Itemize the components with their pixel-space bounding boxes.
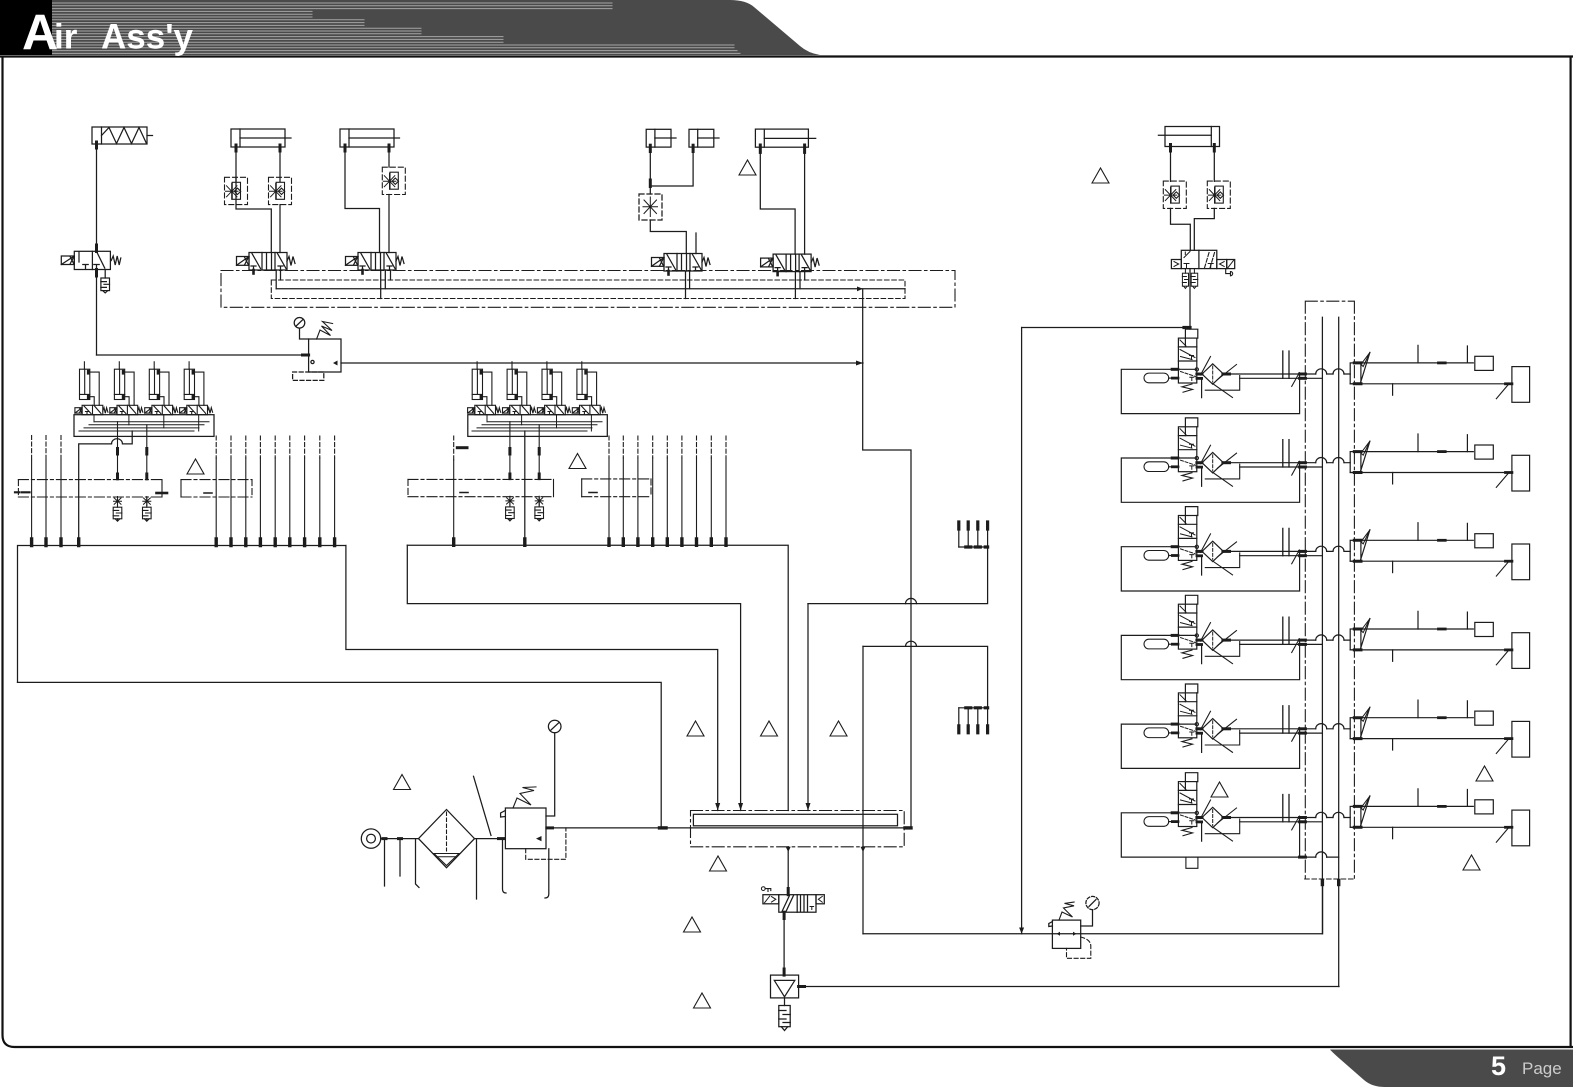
- bank1 bulkhead bar A: [15, 480, 167, 497]
- wire SC3 to valve V3: [388, 195, 390, 253]
- V6 supply drop to row1: [1189, 269, 1191, 330]
- trunk1 outline: [18, 546, 662, 828]
- wires V4 ports into manifold: [686, 271, 690, 299]
- wire CY5 right port to valve V5: [804, 147, 806, 254]
- V6 external pilot stub: [1226, 269, 1231, 276]
- wire CY5 left port jog to valve V5: [760, 147, 795, 254]
- central manifold inner block: [693, 814, 897, 826]
- manual drain slash: [474, 776, 492, 835]
- cylinder CY3: [340, 129, 400, 151]
- bank2 bulkhead bar A: [408, 479, 554, 496]
- cylinder CY4a: [646, 129, 676, 151]
- speed controller SC2a: [225, 177, 248, 204]
- bank1 trunk landing ticks: [32, 539, 335, 546]
- wire SS1 output right: [799, 986, 1339, 988]
- throttle in dashed box T4: [639, 194, 662, 220]
- header gray banner: [0, 0, 820, 55]
- bank1 dashed source columns: [31, 436, 33, 461]
- triangle bank1: [187, 459, 204, 474]
- bank2 group of 9 source lines: [609, 436, 726, 539]
- svg-text:5: 5: [1491, 1051, 1506, 1081]
- speed controller SC6a: [1163, 181, 1186, 208]
- bank2 unit U7: [537, 362, 570, 415]
- filter F1 (diamond): [419, 810, 475, 868]
- bottom dashed cap: [1305, 878, 1355, 880]
- wire CY3 right port through SC3: [388, 147, 390, 167]
- drop arrows into manifold top: [715, 803, 720, 811]
- bank2 output drops with filters: [510, 422, 539, 480]
- header stripes: [52, 3, 740, 53]
- upper 4-stub header: [959, 522, 988, 547]
- junction tick x663 on rail: [660, 826, 667, 829]
- trunk1 inner step: [17, 681, 19, 683]
- cylinder CY4b: [689, 129, 719, 151]
- lower 4-stub header: [959, 708, 988, 733]
- row 1: [1121, 329, 1529, 413]
- triangle near CY5: [739, 160, 756, 175]
- supply rail A x1322.4: [1321, 317, 1323, 934]
- wire CY2 left port to SC: [235, 147, 237, 182]
- cylinder CY6: [1158, 127, 1219, 152]
- bank2 unit U6: [503, 362, 536, 415]
- jump arc on bank1 jog: [112, 439, 123, 444]
- wires CY6 to speed controllers: [1171, 147, 1215, 182]
- svg-text:Ass'y: Ass'y: [101, 18, 194, 57]
- cylinder CY1: [92, 127, 153, 148]
- wire CY2 right port to SC2b: [279, 147, 281, 182]
- bank1 drop filters: [113, 497, 122, 522]
- bank2 unit U8: [572, 362, 605, 415]
- wires V2 ports into manifold: [276, 270, 280, 289]
- svg-text:A: A: [22, 5, 58, 61]
- wire supply drop x863 y289-450 jog to x911: [863, 289, 911, 828]
- bank1 unit U1: [75, 362, 108, 415]
- bank1 output drops through block bottom: [118, 422, 147, 480]
- bank1 unit U2: [110, 362, 143, 415]
- valve V5 (5/2 solenoid): [761, 254, 820, 272]
- dash-dot edges: [1305, 301, 1354, 879]
- wires SC to valve V6: [1171, 208, 1191, 250]
- regulator R2: [501, 720, 561, 898]
- mufflers under V6: [1182, 269, 1197, 289]
- triangle bank2: [569, 454, 586, 469]
- wire V1 lower port down: [96, 270, 98, 356]
- row 6: [1121, 773, 1529, 857]
- R2 dashed pilot box: [526, 828, 566, 859]
- bank1 unit U3: [145, 362, 178, 415]
- trunk2 outline: [407, 545, 788, 810]
- triangle near top-right cylinder: [1092, 168, 1109, 183]
- stub box below row 6: [1186, 857, 1198, 868]
- jump arc on y604 over x911: [906, 598, 917, 603]
- valve V1 (3/2 solenoid): [61, 251, 121, 269]
- wire y646 branch to lower stub header: [863, 646, 988, 708]
- bank2 trunk landing ticks: [454, 539, 726, 545]
- svg-text:Page: Page: [1522, 1059, 1562, 1078]
- cylinder CY5: [755, 129, 815, 152]
- cylinder CY2: [231, 129, 291, 151]
- svg-text:ir: ir: [54, 18, 78, 57]
- bank1 unit U4: [180, 362, 213, 415]
- main bottom supply line y=933.8: [863, 884, 1323, 934]
- valve V2 (5/2 solenoid): [237, 253, 296, 271]
- wires small cylinders tee: [650, 147, 693, 194]
- wire y604 right branch to upper stub header: [808, 547, 988, 604]
- wire SC2a through-line: [236, 177, 271, 252]
- bank2 manifold block: [468, 415, 608, 437]
- supply line through FRL: [381, 838, 419, 840]
- wire CY1 to V1: [96, 144, 98, 251]
- valve V6 (5/2 double pilot): [1171, 250, 1234, 268]
- wire SC2b to valve V2: [279, 205, 281, 253]
- supply rail B x1338.7: [1338, 317, 1340, 986]
- triangle row5 right: [1476, 766, 1493, 781]
- bank2 dashed source column: [453, 436, 455, 460]
- wires V3 ports into manifold: [381, 270, 386, 299]
- tick at rail right end: [905, 826, 911, 829]
- bank2 unit U5: [468, 362, 501, 415]
- speed controller SC3: [382, 167, 405, 194]
- hand valve HV1: [761, 887, 824, 913]
- speed controller SC2b: [269, 177, 292, 204]
- junction tick riser at (1021.6,933.8): [1019, 928, 1024, 934]
- wire throttle to valve V4: [650, 220, 686, 254]
- valve V3 (5/2 solenoid): [346, 253, 405, 271]
- bank1 block internal rails: [79, 422, 209, 431]
- bank2 drop filters: [506, 496, 515, 521]
- pass-through verticals ticks at manifold bottom: [786, 847, 791, 852]
- muffler M1 under valve V1: [104, 270, 106, 279]
- manifold inner dashed box: [271, 280, 905, 299]
- row 5: [1121, 684, 1529, 768]
- junction at (863,363): [856, 361, 863, 366]
- bank2 bulkhead bar B: [582, 479, 651, 497]
- manifold outer dash-dot box: [221, 271, 955, 308]
- row 6 bottom line extension to rail B: [1300, 856, 1339, 858]
- bank1 jog drop to trunk: [79, 431, 133, 540]
- manifold solid rail: [276, 288, 905, 290]
- triangle row6 left: [1211, 782, 1228, 797]
- wire hand valve to soft start SS1: [783, 912, 785, 975]
- wires V5 ports into manifold: [795, 272, 804, 299]
- central manifold dash-dot box: [691, 811, 905, 847]
- triangle row6 right: [1463, 855, 1480, 870]
- row 3: [1121, 507, 1529, 591]
- jump arc on y646 over x911: [906, 641, 917, 646]
- bank1 bulkhead bar B: [181, 480, 252, 497]
- stub above valve V4 right port: [695, 233, 697, 254]
- regulator R1: [293, 318, 341, 381]
- valve V4 (5/2 solenoid): [652, 254, 711, 272]
- regulator R2 output to manifold: [546, 827, 691, 829]
- wire y355 from V1 to regulator R1: [97, 354, 309, 356]
- row 2: [1121, 418, 1529, 502]
- bank1 manifold block: [74, 415, 214, 437]
- bank1 group of 9 source lines: [216, 436, 334, 540]
- rail junction to supply drop: [857, 287, 863, 292]
- riser x1021.6: [1021, 328, 1023, 934]
- air source symbol: [361, 829, 380, 848]
- wire y363 regulator R1 to supply drop: [341, 362, 863, 364]
- riser top horizontal to row1 supply: [1022, 327, 1190, 329]
- header black block: [0, 0, 52, 55]
- supply rail through manifold: [691, 827, 911, 829]
- bottom regulator R3: [1049, 896, 1099, 958]
- speed controller SC6b: [1207, 181, 1230, 208]
- wire filter to regulator: [475, 838, 506, 840]
- muffler under SS1: [784, 998, 786, 1006]
- bank2 block internal rails: [472, 422, 602, 431]
- drain stubs left: [385, 839, 420, 888]
- wire CY3 left port jog to valve V3: [345, 147, 380, 253]
- page number banner: [1330, 1050, 1573, 1088]
- wire x788 manifold to hand valve: [787, 847, 789, 895]
- row 4: [1121, 595, 1529, 679]
- soft start / shutoff SS1 box with triangle: [771, 975, 799, 998]
- bank2 straight drop to trunk: [524, 431, 526, 539]
- bank2 label dash: [457, 446, 467, 449]
